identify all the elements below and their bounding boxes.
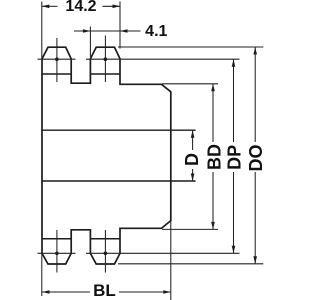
- extension line x=90.4 (for 4.1): [89, 27, 91, 58]
- dimension BL: [42, 291, 171, 293]
- svg-text:D: D: [182, 153, 202, 166]
- svg-text:DP: DP: [225, 145, 245, 170]
- svg-text:DO: DO: [246, 145, 266, 172]
- dimension DO: [254, 47, 256, 264]
- svg-text:4.1: 4.1: [145, 23, 167, 40]
- center mark bottom-right tooth (horizontal continues as DP extension): [86, 230, 240, 273]
- dimension 4.1: [74, 30, 141, 32]
- bore line top (D extension): [42, 129, 196, 131]
- sprocket body outline: [42, 47, 171, 264]
- dimension D: [192, 130, 194, 181]
- dimension DP: [233, 59, 235, 253]
- svg-text:14.2: 14.2: [65, 0, 96, 15]
- tooth root line top: [42, 73, 120, 75]
- dimension 14.2: [42, 5, 120, 7]
- dimension BD: [212, 84, 214, 230]
- extension line BD bottom: [162, 228, 218, 230]
- center mark bottom-left tooth: [38, 230, 76, 273]
- bore line bottom (D extension): [42, 180, 196, 182]
- extension line right edge (for BL): [170, 221, 172, 300]
- center mark top-right tooth (horizontal continues as DP extension): [86, 36, 240, 83]
- extension line DO top: [118, 46, 263, 48]
- extension line x=120 (for 14.2 and 4.1): [119, 2, 121, 49]
- extension line DO bottom: [118, 263, 263, 265]
- svg-text:BD: BD: [205, 144, 225, 170]
- extension line BD top: [162, 83, 218, 85]
- tooth root line bottom: [42, 238, 120, 240]
- extension line left (for 14.2 and BL): [41, 2, 43, 297]
- svg-text:BL: BL: [93, 281, 116, 300]
- center mark top-left tooth: [38, 38, 76, 82]
